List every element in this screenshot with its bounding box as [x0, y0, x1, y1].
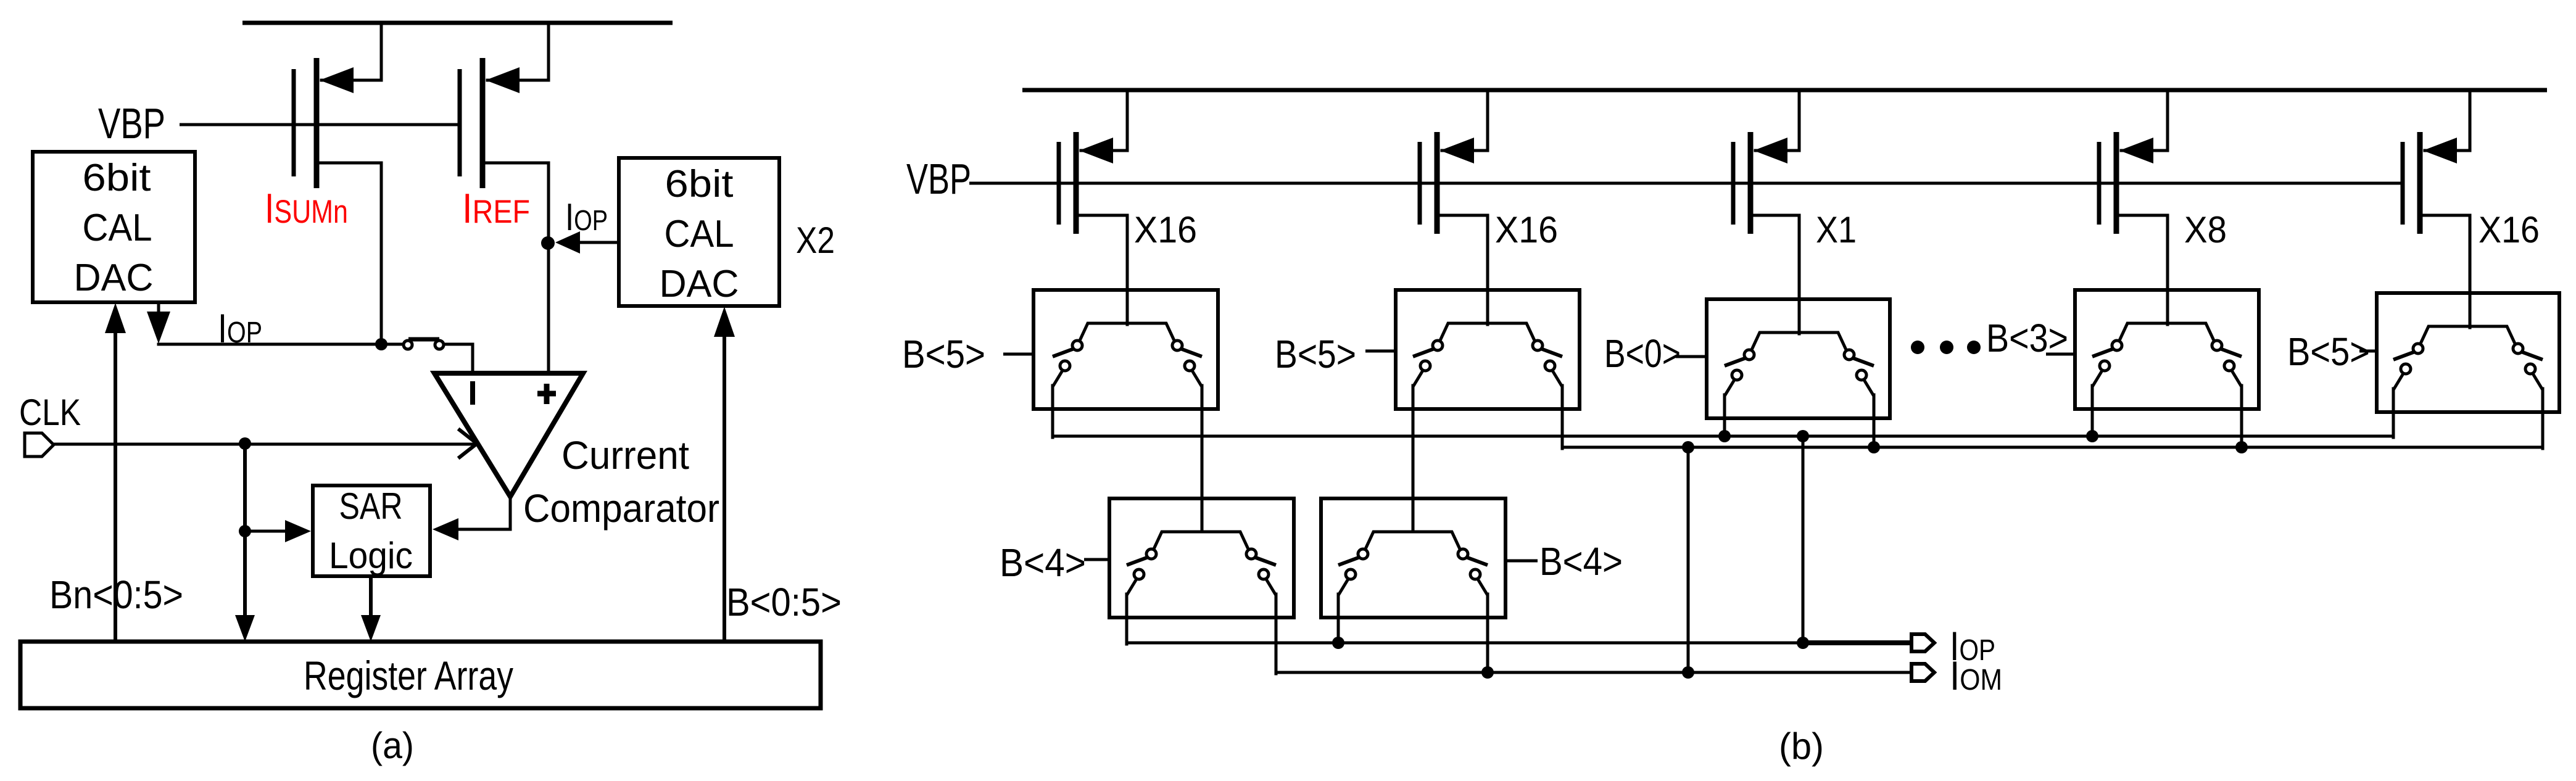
M7 drain wire — [2422, 215, 2470, 328]
SW6 left leg wire down — [1125, 618, 1129, 644]
SW3 right switch arm — [1852, 358, 1874, 366]
M5 source arrow — [1754, 138, 1787, 163]
svg-text:(b): (b) — [1779, 725, 1824, 767]
arrowhead Bn into left DAC — [105, 303, 126, 333]
junction node on IREF drain — [541, 236, 555, 250]
junction SW7-left / IOP — [1332, 637, 1344, 649]
SW7 right upper contact — [1458, 549, 1468, 559]
junction drop / IOP — [1797, 637, 1809, 649]
M2 source arrow — [486, 67, 520, 93]
CLK wire to comparator — [54, 443, 475, 446]
M7 gate bar — [2401, 142, 2405, 225]
transistor M6 unit PMOS X8 — [2099, 90, 2168, 324]
ellipsis node dots — [1911, 341, 1924, 354]
SW7 right lower link — [1477, 578, 1488, 595]
IOP output line — [1125, 642, 1911, 645]
junction SW3-left / bus P — [1718, 430, 1731, 442]
svg-text:X16: X16 — [1495, 209, 1558, 250]
comparator output wire — [458, 497, 510, 529]
SW6 left switch arm — [1127, 557, 1148, 565]
SW3 left switch arm — [1725, 358, 1746, 366]
M5 gate bar — [1731, 142, 1736, 225]
svg-text:(a): (a) — [371, 725, 414, 766]
SW7 right lower contact — [1470, 569, 1480, 579]
switch cell SW6 (B<4>) — [1109, 498, 1294, 618]
SW5 box — [2377, 293, 2559, 412]
M4 source wire — [1442, 90, 1488, 151]
SW4 right upper contact — [2212, 341, 2222, 350]
M2 source wire — [487, 23, 549, 80]
SW7 common bar — [1365, 532, 1460, 550]
M6 source arrow — [2119, 138, 2153, 163]
SW5 left leg — [2392, 389, 2395, 412]
SW7 right leg — [1486, 594, 1489, 618]
B<5> wire to SW1 — [1003, 353, 1033, 356]
M1 channel bar — [314, 58, 320, 188]
arrowhead into SAR logic — [285, 520, 311, 542]
SW3 left leg wire down — [1723, 418, 1726, 436]
svg-text:B<5>: B<5> — [902, 332, 985, 376]
SW3 right leg wire down — [1873, 418, 1876, 447]
SW6 left upper contact — [1146, 549, 1156, 559]
switch cell SW3 (B<0>) — [1707, 299, 1890, 418]
SW3 left lower contact — [1732, 370, 1742, 380]
SW5 right lower contact — [2525, 364, 2535, 374]
SW2 box — [1396, 290, 1580, 409]
svg-text:X16: X16 — [2479, 209, 2540, 250]
SW1 left leg wire down — [1051, 409, 1054, 437]
arrowhead down to IOP wire — [147, 312, 170, 344]
SW4 right leg — [2240, 386, 2243, 409]
junction drop / IOM — [1682, 666, 1694, 679]
B<3> wire to SW4 — [2046, 353, 2075, 356]
Register Array block U5 — [20, 642, 821, 708]
bus M drop wire to IOM — [1687, 447, 1690, 672]
SW4 common bar — [2119, 323, 2214, 342]
SW5 right upper contact — [2513, 344, 2523, 353]
SW4 right lower link — [2231, 370, 2242, 387]
M1 source arrow — [320, 67, 354, 93]
junction SW4-left / bus P — [2086, 430, 2098, 442]
SAR to register array wire — [369, 576, 373, 616]
switch cell SW5 (B<5>) — [2377, 293, 2559, 412]
wire IOP from right DAC to node — [574, 241, 619, 244]
svg-text:B<4>: B<4> — [1539, 539, 1623, 584]
SW3 right leg — [1873, 395, 1876, 418]
SW7 left switch arm — [1338, 557, 1360, 565]
svg-text:X1: X1 — [1816, 209, 1857, 250]
M2 gate bar — [458, 69, 462, 176]
M4 source arrow — [1440, 138, 1474, 163]
svg-text:B<5>: B<5> — [1275, 332, 1356, 376]
arrowhead into SAR right side — [433, 518, 458, 540]
svg-text:DAC: DAC — [74, 257, 154, 299]
comparator U1 (current comparator) — [434, 373, 583, 497]
junction node CLK/SAR branch — [239, 525, 251, 537]
SW2 left upper contact — [1433, 341, 1443, 350]
M4 channel bar — [1435, 132, 1440, 234]
output bus P (upper) — [1053, 435, 2395, 438]
SW3 left leg — [1723, 395, 1726, 418]
SW1 box — [1033, 290, 1218, 409]
SW1 left upper contact — [1072, 341, 1082, 350]
junction bus P / drop — [1797, 430, 1809, 442]
VBP gate wire (b) — [969, 182, 2403, 185]
wire switch to comparator minus input — [444, 344, 473, 372]
SW4 left lower contact — [2100, 361, 2110, 371]
M7 channel bar — [2417, 132, 2423, 234]
SW7 left leg wire down — [1337, 618, 1340, 643]
SW7 left lower link — [1338, 578, 1349, 595]
svg-text:VBP: VBP — [906, 155, 971, 203]
SW1 right lower link — [1191, 370, 1202, 387]
M7 source wire — [2425, 90, 2470, 151]
switch cell SW2 (B<5>) — [1396, 290, 1580, 409]
M5 drain wire — [1753, 215, 1799, 334]
SW7 left lower contact — [1346, 569, 1356, 579]
junction bus M / drop — [1682, 441, 1694, 453]
section (a): SAR calibration loop — [19, 23, 842, 766]
junction SW7-right / IOM — [1481, 666, 1494, 679]
M1 gate bar — [292, 69, 296, 176]
SW2 right lower contact — [1545, 361, 1555, 371]
SW5 right lower link — [2532, 373, 2543, 390]
SW2 right leg — [1561, 386, 1564, 409]
SW1 common bar — [1079, 323, 1175, 342]
M6 channel bar — [2114, 132, 2119, 234]
SW2 right switch arm — [1541, 349, 1562, 357]
junction SW3-right / bus M — [1868, 441, 1880, 453]
SW3 box — [1707, 299, 1890, 418]
6bit CAL DAC block U2 (left) — [33, 152, 195, 302]
bus P drop wire to IOP — [1802, 436, 1805, 643]
svg-text:B<5>: B<5> — [2287, 329, 2370, 374]
svg-text:CLK: CLK — [19, 392, 81, 433]
svg-text:B<0:5>: B<0:5> — [726, 580, 842, 624]
arrowhead into IOP node — [555, 231, 580, 254]
SW1 left leg — [1051, 386, 1054, 409]
junction SW4-right / bus M — [2235, 441, 2248, 453]
arrowhead SAR to register array — [361, 615, 381, 642]
M3 source wire — [1081, 90, 1127, 151]
calibration switch S1 bar — [408, 337, 439, 342]
SW3 common bar — [1751, 333, 1847, 351]
B<5> wire to SW2 — [1365, 350, 1396, 353]
SW6 box — [1109, 498, 1294, 618]
svg-text:Logic: Logic — [329, 535, 413, 576]
svg-text:VBP: VBP — [98, 99, 165, 147]
SW3 right lower link — [1863, 379, 1874, 396]
SW5 left switch arm — [2393, 352, 2415, 360]
M3 channel bar — [1074, 132, 1079, 234]
M3 source arrow — [1079, 138, 1113, 163]
SW6 right upper contact — [1246, 549, 1256, 559]
svg-text:Register Array: Register Array — [304, 653, 513, 698]
IOM output pin symbol — [1911, 664, 1934, 681]
transistor M2 IREF mirror PMOS — [460, 23, 549, 372]
svg-text:Current: Current — [561, 433, 689, 477]
IOM output line — [1275, 671, 1911, 674]
svg-text:Comparator: Comparator — [523, 486, 719, 531]
SAR Logic block U4 — [313, 486, 430, 576]
M2 channel bar — [480, 58, 486, 188]
SW5 left leg wire down — [2392, 412, 2395, 437]
CLK branch down to register array — [243, 444, 247, 616]
M4 drain wire — [1439, 215, 1488, 324]
M7 source arrow — [2423, 138, 2457, 163]
SW4 right lower contact — [2224, 361, 2234, 371]
switch cell SW7 (B<4>) — [1321, 498, 1505, 618]
wire to SAR logic — [245, 530, 286, 533]
transistor M3 unit PMOS X16 — [1059, 90, 1127, 324]
SW2 right lower link — [1552, 370, 1562, 387]
6bit CAL DAC block U3 (right) — [619, 158, 779, 306]
svg-text:Bn<0:5>: Bn<0:5> — [49, 572, 183, 617]
SW6 left lower contact — [1134, 569, 1144, 579]
VBP gate wire (a) — [180, 123, 460, 126]
arrowhead B into right DAC — [714, 307, 735, 337]
SW5 right switch arm — [2521, 352, 2543, 360]
SW1 left lower link — [1053, 370, 1063, 387]
SW6 right lower contact — [1259, 569, 1269, 579]
M6 drain wire — [2119, 215, 2168, 324]
SW2 left lower contact — [1420, 361, 1430, 371]
SW2 right upper contact — [1533, 341, 1543, 350]
SW6 left leg — [1125, 594, 1129, 618]
svg-text:6bit: 6bit — [665, 163, 734, 205]
M6 source wire — [2121, 90, 2168, 151]
B<4> wire to SW6 — [1084, 558, 1109, 561]
calibration switch S1 contact b — [435, 341, 444, 349]
svg-text:B<0>: B<0> — [1604, 331, 1681, 376]
M1 drain wire — [319, 163, 381, 343]
output bus M (lower) — [1561, 446, 2543, 449]
SW1 right lower contact — [1185, 361, 1195, 371]
comparator plus mark horizontal — [537, 391, 556, 397]
section (b): segmented current-steering DAC — [902, 90, 2559, 767]
IOP wire to switch — [159, 343, 404, 346]
svg-text:SAR: SAR — [339, 486, 403, 527]
SW4 left lower link — [2092, 370, 2103, 387]
SW7 right switch arm — [1466, 557, 1488, 565]
SW6 right leg — [1275, 594, 1278, 618]
M4 gate bar — [1418, 142, 1422, 225]
SW7 left leg — [1337, 594, 1340, 618]
SW3 left upper contact — [1744, 350, 1754, 360]
SW2 common bar — [1439, 323, 1535, 342]
SW4 left leg — [2091, 386, 2094, 409]
svg-text:CAL: CAL — [665, 213, 734, 255]
svg-text:B<4>: B<4> — [1000, 540, 1086, 585]
M2 drain wire — [485, 163, 549, 372]
SW6 right leg wire down — [1275, 618, 1278, 674]
SW1 right upper contact — [1172, 341, 1182, 350]
B<0:5> bus wire — [723, 336, 726, 642]
SW4 left leg wire down — [2091, 409, 2094, 436]
svg-text:CAL: CAL — [83, 207, 152, 249]
svg-text:X2: X2 — [796, 220, 835, 261]
VDD supply rail (a) — [242, 21, 673, 25]
SW6 common bar — [1153, 532, 1249, 550]
SW5 common bar — [2420, 326, 2516, 345]
B<4> wire to SW7 — [1505, 560, 1538, 563]
wire: left DAC output arrow down — [157, 302, 160, 316]
SW4 right switch arm — [2220, 349, 2242, 357]
SW2 left switch arm — [1413, 349, 1435, 357]
SW4 right leg wire down — [2240, 409, 2243, 447]
SW3 right upper contact — [1844, 350, 1854, 360]
SW2 left leg — [1412, 386, 1415, 409]
SW3 left lower link — [1725, 379, 1735, 396]
SW5 left upper contact — [2413, 344, 2423, 353]
SW7 left upper contact — [1358, 549, 1368, 559]
arrowhead into register array — [235, 615, 255, 642]
M5 source wire — [1755, 90, 1799, 151]
transistor M5 unit PMOS X1 — [1733, 90, 1799, 334]
M3 drain wire — [1079, 215, 1127, 324]
SW1 right switch arm — [1180, 349, 1202, 357]
M6 gate bar — [2097, 142, 2102, 225]
SW4 left upper contact — [2112, 341, 2122, 350]
B<5> wire to SW5 — [2359, 350, 2377, 353]
SW1 left switch arm — [1053, 349, 1074, 357]
SW1 right leg — [1201, 386, 1204, 409]
junction node IOP/M1 drain — [375, 338, 387, 350]
switch cell SW4 (B<3>) — [2075, 290, 2259, 409]
comparator plus mark vertical — [544, 384, 550, 404]
svg-text:X16: X16 — [1134, 209, 1197, 250]
SW4 box — [2075, 290, 2259, 409]
M5 channel bar — [1748, 132, 1754, 234]
SW6 right switch arm — [1254, 557, 1276, 565]
CLK input pin symbol — [25, 433, 54, 457]
switch cell SW1 (B<5>) — [1033, 290, 1218, 409]
SW1 right leg down to SW6 tail — [1201, 409, 1204, 533]
svg-text:X8: X8 — [2184, 209, 2227, 250]
B<0> wire to SW3 — [1676, 355, 1707, 358]
SW5 left lower contact — [2401, 364, 2411, 374]
IOP output line (thick segment) — [1803, 640, 1911, 645]
SW7 box — [1321, 498, 1505, 618]
calibration switch S1 contact a — [404, 341, 412, 349]
SW1 left lower contact — [1060, 361, 1070, 371]
junction node on CLK wire — [239, 437, 251, 450]
svg-text:DAC: DAC — [660, 263, 739, 305]
SW5 right leg — [2541, 389, 2545, 412]
VDD supply rail (b) — [1022, 88, 2547, 93]
SW5 right leg wire down — [2541, 412, 2545, 448]
SW3 right lower contact — [1857, 370, 1866, 380]
SW6 right lower link — [1265, 578, 1276, 595]
transistor M1 ISUMn mirror PMOS — [294, 23, 381, 343]
SW2 right leg wire down — [1561, 409, 1564, 448]
SW7 right leg wire down — [1486, 618, 1489, 672]
M3 gate bar — [1057, 142, 1061, 225]
comparator minus mark — [470, 381, 475, 405]
transistor M7 unit PMOS X16 — [2403, 90, 2470, 328]
svg-text:6bit: 6bit — [83, 157, 151, 199]
SW5 left lower link — [2393, 373, 2404, 390]
comparator clock chevron — [460, 430, 477, 457]
IOP output pin symbol — [1911, 634, 1934, 651]
Bn<0:5> bus wire — [114, 332, 117, 642]
SW2 left leg down to SW7 tail — [1412, 409, 1415, 533]
SW2 left lower link — [1413, 370, 1423, 387]
M1 source wire — [321, 23, 381, 80]
transistor M4 unit PMOS X16 — [1420, 90, 1488, 324]
SW4 left switch arm — [2092, 349, 2114, 357]
SW6 left lower link — [1127, 578, 1137, 595]
